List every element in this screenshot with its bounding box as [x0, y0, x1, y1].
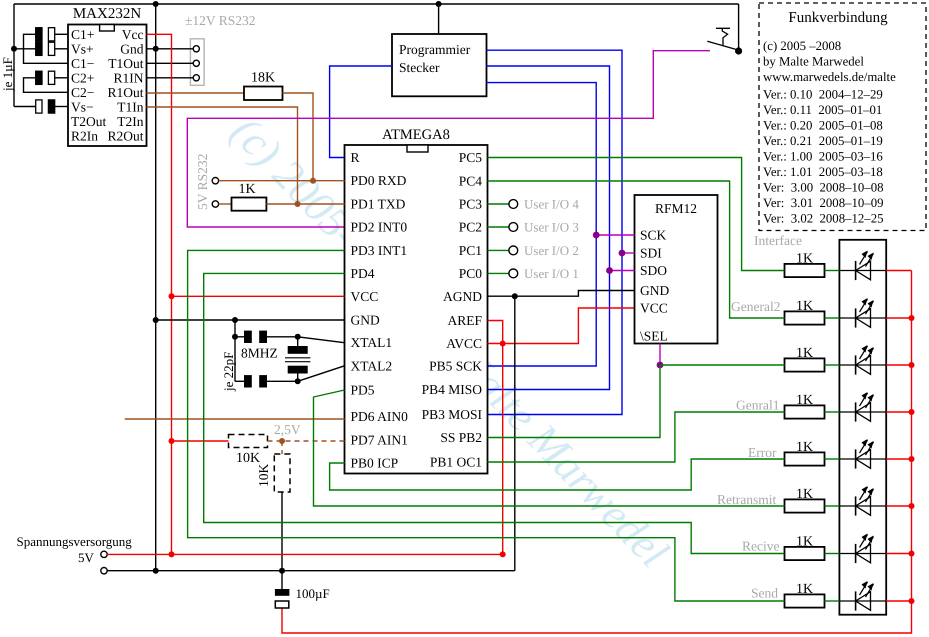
junction AVCC node	[500, 341, 506, 347]
wire PC4 to General2 R2	[488, 181, 785, 318]
svg-text:±12V RS232: ±12V RS232	[185, 13, 256, 28]
wire gnd to upper cap	[235, 336, 244, 338]
wire R4 to LED block	[825, 411, 840, 413]
svg-text:R2Out: R2Out	[107, 128, 143, 143]
junction upper cap node	[232, 334, 238, 340]
wire XTAL1 diagonal	[298, 337, 345, 343]
svg-text:PD1 TXD: PD1 TXD	[351, 197, 406, 212]
crystal 8MHZ symbol	[288, 346, 308, 354]
wire R8 to LED block	[825, 600, 840, 602]
junction LED rail row 2	[909, 315, 915, 321]
wire User I/O 2 stub	[488, 249, 509, 251]
wire gnd to lower cap	[235, 380, 244, 382]
wire AREF to 5V trunk	[488, 321, 503, 555]
svg-text:5V RS232: 5V RS232	[195, 154, 210, 210]
IC MAX232N body	[68, 25, 147, 147]
wire 10K bottom to GND rail	[281, 492, 283, 571]
svg-text:MAX232N: MAX232N	[73, 6, 142, 22]
svg-text:Vcc: Vcc	[122, 27, 144, 42]
svg-text:User I/O 1: User I/O 1	[524, 266, 579, 281]
wire programmer MOSI (blue)	[487, 50, 623, 414]
svg-text:AGND: AGND	[443, 289, 482, 304]
svg-text:Vs−: Vs−	[71, 99, 94, 114]
wire left rail MAX232 caps	[13, 4, 15, 107]
wire R7 to LED block	[825, 553, 840, 555]
wire programmer SCK (blue)	[487, 83, 597, 366]
wire PD3 to Send R8	[188, 250, 785, 601]
wire LED D5 cathode	[886, 458, 911, 460]
wire upper cap to XTAL1 node	[267, 336, 298, 338]
junction SDI / programmer MOSI	[619, 250, 626, 257]
pin connector 2	[193, 60, 199, 66]
svg-text:SCK: SCK	[640, 228, 667, 243]
LED D8	[839, 600, 886, 602]
svg-text:User I/O 4: User I/O 4	[524, 197, 579, 212]
wire crystal ground stem	[234, 320, 236, 381]
wire LED D1 cathode	[886, 270, 911, 272]
svg-text:VCC: VCC	[640, 301, 668, 316]
wire 10K to PD7 (dashed)	[268, 440, 345, 442]
svg-text:PC4: PC4	[459, 174, 483, 189]
wire SEL to SS PB2 (green)	[488, 365, 661, 438]
svg-text:Ver: 3.01 2008–10–09: Ver: 3.01 2008–10–09	[763, 196, 884, 210]
junction PD0 node	[310, 178, 316, 184]
resistor 1K R3	[785, 358, 825, 371]
terminal User I/O 1	[509, 269, 518, 278]
svg-text:User I/O 3: User I/O 3	[524, 220, 579, 235]
svg-text:Ver.: 0.21 2005–01–19: Ver.: 0.21 2005–01–19	[763, 134, 883, 148]
wire vertical GND trunk x155	[155, 4, 157, 571]
junction XTAL1 node	[295, 334, 301, 340]
terminal TXD circle	[212, 201, 218, 207]
svg-text:10K: 10K	[256, 464, 271, 488]
info box Funkverbindung	[759, 3, 926, 231]
antenna symbol	[707, 28, 739, 50]
svg-text:PB1 OC1: PB1 OC1	[430, 455, 482, 470]
wire LED cathode rail	[282, 271, 912, 634]
svg-text:Ver.: 0.20 2005–01–08: Ver.: 0.20 2005–01–08	[763, 119, 883, 133]
svg-text:T1In: T1In	[117, 99, 143, 114]
svg-text:\SEL: \SEL	[640, 329, 668, 344]
svg-text:Gnd: Gnd	[120, 41, 143, 56]
svg-text:SS PB2: SS PB2	[440, 430, 482, 445]
IC ATMEGA8 notch	[407, 145, 428, 152]
svg-text:T1Out: T1Out	[108, 56, 143, 71]
wire T1In to PD1 TXD	[147, 107, 298, 204]
svg-text:PD4: PD4	[351, 266, 375, 281]
wire TXD terminal to 1K	[219, 203, 232, 205]
wire LED D6 cathode	[886, 505, 911, 507]
wire T1Out to connector	[147, 62, 194, 64]
wire GND rail to 100uF	[281, 571, 283, 589]
connector 12V RS232 outline	[190, 39, 204, 86]
wire 1K to PD1	[266, 203, 344, 205]
junction top rail / GND trunk	[153, 1, 159, 7]
wire R2 to LED block	[825, 317, 840, 319]
svg-text:PD6 AIN0: PD6 AIN0	[351, 409, 409, 424]
resistor 1K RS232	[232, 198, 267, 211]
junction +5V 10K	[169, 438, 175, 444]
wire C1+ to cap	[55, 33, 68, 35]
wire crystal top stub	[297, 337, 299, 346]
wire AGND to RFM12 GND	[488, 291, 635, 297]
wire crystal bottom stub	[297, 374, 299, 382]
LED D7	[839, 553, 886, 555]
svg-text:Ver.: 0.10 2004–12–29: Ver.: 0.10 2004–12–29	[763, 88, 883, 102]
junction SDO / programmer MISO	[606, 267, 613, 274]
wire lower cap to XTAL2 node	[267, 380, 298, 382]
capacitor C2 (Vs+) 1uF	[36, 42, 42, 55]
junction GND rail / trunk	[153, 568, 159, 574]
svg-text:XTAL2: XTAL2	[351, 358, 393, 373]
svg-text:Ver.: 1.01 2005–03–18: Ver.: 1.01 2005–03–18	[763, 165, 883, 179]
wire LED D3 cathode	[886, 364, 911, 366]
wire PD5 to Retransmit R6	[314, 390, 785, 506]
svg-text:Genral1: Genral1	[736, 398, 779, 413]
svg-text:je 22pF: je 22pF	[221, 352, 236, 392]
terminal User I/O 3	[509, 223, 518, 232]
pin connector 1	[193, 46, 199, 52]
wire PC5 to Interface R1	[488, 158, 785, 271]
svg-text:www.marwedels.de/malte: www.marwedels.de/malte	[763, 70, 896, 84]
wire LED D7 cathode	[886, 553, 911, 555]
wire Vs+ cap	[55, 48, 68, 50]
svg-text:PC1: PC1	[459, 243, 482, 258]
connector Programmier Stecker body	[392, 34, 487, 96]
svg-text:Retransmit: Retransmit	[717, 492, 776, 507]
svg-text:100µF: 100µF	[296, 586, 330, 601]
terminal User I/O 2	[509, 246, 518, 255]
resistor 1K R8	[785, 594, 825, 607]
wire C2+ to cap	[55, 77, 68, 79]
svg-text:GND: GND	[640, 283, 669, 298]
wire SEL to R3	[660, 364, 785, 366]
IC MAX232N notch	[100, 25, 115, 32]
svg-text:Stecker: Stecker	[399, 60, 440, 75]
LED D2	[839, 317, 886, 319]
wire User I/O 1 stub	[488, 272, 509, 274]
wire User I/O 4 stub	[488, 203, 509, 205]
svg-text:PC2: PC2	[459, 220, 482, 235]
resistor 1K R5	[785, 452, 825, 465]
wire GND rail	[107, 570, 515, 572]
svg-text:Recive: Recive	[742, 539, 779, 554]
svg-text:Ver.: 0.11 2005–01–01: Ver.: 0.11 2005–01–01	[763, 103, 882, 117]
svg-text:ATMEGA8: ATMEGA8	[382, 127, 450, 143]
svg-text:1K: 1K	[238, 182, 255, 197]
junction antenna node	[735, 47, 742, 54]
wire 5V rail	[107, 553, 503, 555]
resistor 1K R4	[785, 405, 825, 418]
junction LED rail row 5	[909, 456, 915, 462]
junction LED rail row 3	[909, 362, 915, 368]
wire +5V to 10K	[172, 440, 229, 442]
wire antenna to PD2 INT0 (magenta)	[187, 51, 710, 227]
wire PD6 AIN0 stub	[125, 418, 345, 420]
wire LED D2 cathode	[886, 317, 911, 319]
wire cap C1 to C1-	[24, 34, 69, 63]
svg-text:T2In: T2In	[117, 114, 143, 129]
svg-text:R: R	[351, 150, 360, 165]
svg-text:PD2 INT0: PD2 INT0	[351, 220, 408, 235]
wire SEL drop (magenta)	[659, 344, 661, 366]
wire XTAL2 diagonal	[298, 366, 345, 382]
svg-text:R1IN: R1IN	[114, 70, 144, 85]
capacitor C4 (Vs-) 1uF	[36, 100, 42, 113]
svg-text:10K: 10K	[236, 451, 260, 466]
junction 2.5V node	[279, 438, 285, 444]
junction LED rail row 8	[909, 598, 915, 604]
svg-text:Interface: Interface	[754, 233, 802, 248]
LED D4	[839, 411, 886, 413]
svg-text:2,5V: 2,5V	[274, 422, 301, 437]
svg-text:AVCC: AVCC	[446, 336, 482, 351]
capacitor 22pF lower	[244, 375, 252, 387]
junction LED rail row 7	[909, 551, 915, 557]
svg-text:PB3 MOSI: PB3 MOSI	[422, 407, 483, 422]
junction GND trunk	[153, 317, 159, 323]
LED D6	[839, 505, 886, 507]
resistor 1K R2	[785, 311, 825, 324]
svg-text:Ver: 3.00 2008–10–08: Ver: 3.00 2008–10–08	[763, 180, 884, 194]
svg-text:PC5: PC5	[459, 150, 483, 165]
svg-text:SDI: SDI	[640, 246, 662, 261]
svg-text:General2: General2	[731, 299, 780, 314]
svg-text:RFM12: RFM12	[655, 201, 697, 216]
svg-text:je 1µF: je 1µF	[0, 57, 15, 92]
wire R5 to LED block	[825, 458, 840, 460]
pin connector 3	[193, 75, 199, 81]
svg-text:C2+: C2+	[71, 70, 94, 85]
svg-text:PD0 RXD: PD0 RXD	[351, 173, 407, 188]
wire LED D8 cathode	[886, 600, 911, 602]
resistor 10K vertical (dashed)	[274, 454, 290, 492]
capacitor 100uF	[275, 589, 290, 596]
wire 18K to PD0 RXD	[283, 93, 314, 181]
svg-text:VCC: VCC	[351, 289, 379, 304]
junction GND rail / 100uF	[279, 568, 285, 574]
svg-text:PC0: PC0	[459, 266, 483, 281]
capacitor C3 1uF	[36, 71, 42, 84]
svg-text:R1Out: R1Out	[107, 85, 143, 100]
wire Gnd to connector	[147, 48, 194, 50]
svg-text:Vs+: Vs+	[71, 41, 94, 56]
wire cap C3 to C2-	[24, 78, 69, 93]
svg-text:(c) 2005 –2008: (c) 2005 –2008	[763, 39, 841, 53]
resistor 1K R1	[785, 264, 825, 277]
wire 2.5V node down (dashed)	[281, 441, 283, 454]
wire LED D4 cathode	[886, 411, 911, 413]
wire Vs- cap to left rail	[14, 106, 36, 108]
svg-text:T2Out: T2Out	[71, 114, 106, 129]
wire +5V to VCC ATMEGA	[172, 295, 345, 297]
junction LED rail row 6	[909, 503, 915, 509]
svg-text:C2−: C2−	[71, 85, 94, 100]
svg-text:by Malte Marwedel: by Malte Marwedel	[763, 55, 864, 69]
junction XTAL2 node	[295, 378, 301, 384]
wire R1Out to 18K	[147, 92, 245, 94]
svg-text:Programmier: Programmier	[399, 42, 471, 57]
terminal 5V -	[101, 568, 107, 574]
terminal RXD circle	[212, 178, 218, 184]
svg-text:PD5: PD5	[351, 383, 375, 398]
wire GND trunk to GND ATMEGA	[156, 319, 345, 321]
wire Vs+ cap to left rail	[14, 48, 36, 50]
junction LED rail row 4	[909, 409, 915, 415]
svg-text:Error: Error	[748, 445, 777, 460]
wire SDO stub (magenta)	[610, 270, 635, 272]
svg-text:5V: 5V	[78, 550, 95, 565]
junction GND crystal	[232, 317, 238, 323]
wire PB1 OC1 to Genral1 R4	[488, 412, 785, 462]
wire AGND trunk down	[514, 296, 516, 571]
wire RXD terminal to PD0	[219, 180, 345, 182]
terminal 5V +	[101, 551, 107, 557]
LED D1	[839, 270, 886, 272]
svg-text:PD7 AIN1: PD7 AIN1	[351, 433, 408, 448]
LED D3	[839, 364, 886, 366]
junction SCK / programmer SCK	[593, 232, 600, 239]
svg-text:PB0 ICP: PB0 ICP	[351, 456, 399, 471]
wire programmer RESET (blue)	[330, 66, 392, 158]
wire AVCC to RFM12 VCC	[488, 308, 635, 344]
junction 5V / Vcc trunk	[169, 551, 175, 557]
svg-text:R2In: R2In	[71, 128, 98, 143]
svg-text:Funkverbindung: Funkverbindung	[788, 10, 888, 26]
wire PB0 ICP to Error R5	[330, 459, 785, 490]
svg-text:Spannungsversorgung: Spannungsversorgung	[17, 534, 133, 549]
terminal User I/O 4	[509, 200, 518, 209]
wire drop to programming connector	[438, 4, 440, 34]
svg-text:PC3: PC3	[459, 197, 483, 212]
wire R6 to LED block	[825, 505, 840, 507]
wire top rail	[14, 3, 739, 5]
resistor 1K R7	[785, 547, 825, 560]
svg-text:C1+: C1+	[71, 27, 94, 42]
IC ATMEGA8 body	[345, 145, 488, 474]
wire SCK stub (magenta)	[596, 234, 634, 236]
svg-text:PB5 SCK: PB5 SCK	[429, 359, 482, 374]
capacitor 22pF upper	[244, 331, 252, 343]
wire SDI stub (magenta)	[622, 252, 635, 254]
svg-text:Send: Send	[751, 586, 778, 601]
junction PD1 node	[295, 201, 301, 207]
junction +5V VCC	[169, 293, 175, 299]
IC RFM12 body	[635, 195, 718, 344]
junction 5V / AREF trunk	[500, 551, 506, 557]
resistor 1K R6	[785, 499, 825, 512]
wire R3 to LED block	[825, 364, 840, 366]
wire R1IN to connector	[147, 77, 194, 79]
wire Vs- cap	[55, 106, 68, 108]
svg-text:GND: GND	[351, 313, 380, 328]
wire Vcc MAX232 to +5V trunk	[147, 34, 172, 554]
svg-text:Ver.: 1.00 2005–03–16: Ver.: 1.00 2005–03–16	[763, 149, 883, 163]
svg-text:18K: 18K	[251, 71, 275, 86]
svg-text:AREF: AREF	[447, 313, 482, 328]
svg-text:SDO: SDO	[640, 263, 667, 278]
junction left rail Vs+	[11, 46, 17, 52]
capacitor C1 1uF	[36, 28, 42, 41]
wire programmer MISO (blue)	[487, 66, 610, 390]
junction AGND node	[512, 293, 518, 299]
junction Gnd trunk	[153, 46, 159, 52]
junction SEL node	[657, 362, 664, 369]
svg-text:8MHZ: 8MHZ	[241, 346, 278, 361]
LED block outline	[839, 240, 886, 615]
resistor 10K horizontal (dashed)	[229, 435, 268, 448]
wire R1 to LED block	[825, 270, 840, 272]
wire drop to antenna	[738, 4, 740, 51]
junction top rail / programmer drop	[436, 1, 442, 7]
svg-text:PB4 MISO: PB4 MISO	[422, 382, 483, 397]
svg-text:XTAL1: XTAL1	[351, 335, 393, 350]
svg-text:C1−: C1−	[71, 56, 94, 71]
LED D5	[839, 458, 886, 460]
resistor 18K	[244, 87, 283, 101]
wire PD4 to Recive R7	[204, 273, 785, 553]
svg-text:User I/O 2: User I/O 2	[524, 243, 579, 258]
svg-text:Ver: 3.02 2008–12–25: Ver: 3.02 2008–12–25	[763, 212, 884, 226]
svg-text:PD3 INT1: PD3 INT1	[351, 243, 408, 258]
wire User I/O 3 stub	[488, 226, 509, 228]
